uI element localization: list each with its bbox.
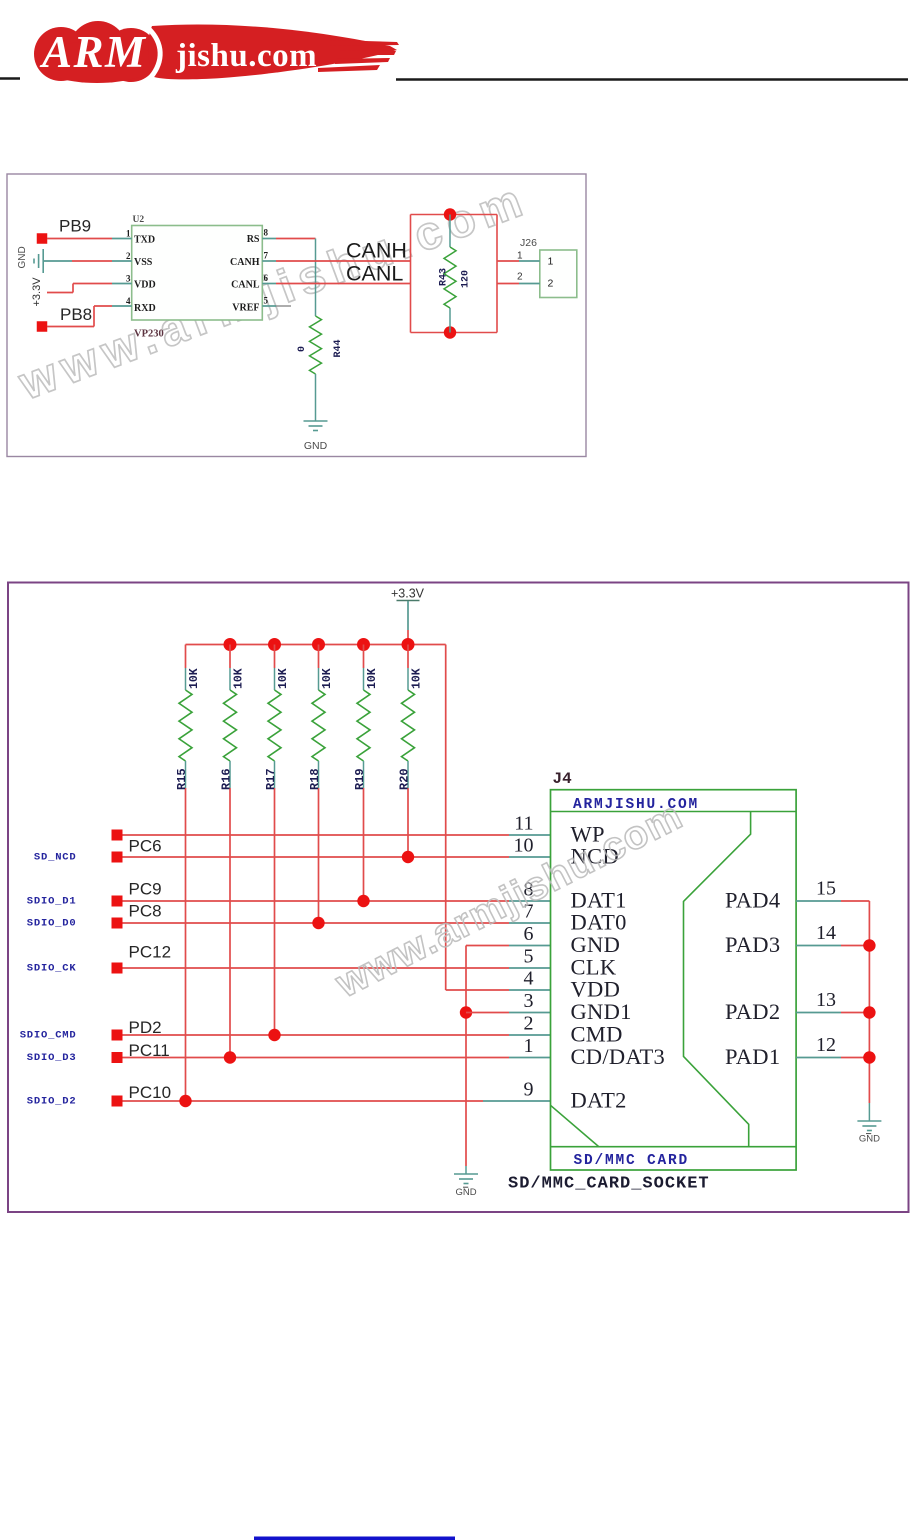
svg-text:RXD: RXD: [134, 303, 156, 314]
svg-text:DAT2: DAT2: [571, 1088, 627, 1113]
junction dot loop bottom: [444, 326, 456, 338]
svg-text:CANL: CANL: [346, 262, 403, 286]
pad PC6: [112, 830, 123, 841]
junction dot R16/CD-DAT3: [224, 1051, 236, 1063]
wire PAD2: [796, 1012, 841, 1014]
svg-text:PAD1: PAD1: [725, 1044, 780, 1069]
svg-text:PC10: PC10: [129, 1083, 172, 1102]
svg-text:3: 3: [126, 274, 131, 284]
svg-text:+3.3V: +3.3V: [391, 587, 425, 601]
junction dot R15/DAT2: [179, 1095, 191, 1107]
pad PC9: [112, 896, 123, 907]
pad PC8: [112, 918, 123, 929]
svg-text:7: 7: [264, 251, 269, 261]
svg-text:6: 6: [264, 273, 269, 283]
junction dot PAD1: [863, 1051, 875, 1063]
junction dot R19/DAT1: [357, 895, 369, 907]
svg-text:2: 2: [126, 251, 131, 261]
pad PB8: [37, 321, 48, 332]
wire PB9 to TXD: [47, 238, 112, 240]
junction dot bus R19: [357, 638, 370, 651]
pad PB9: [37, 233, 48, 244]
svg-text:5: 5: [524, 946, 534, 968]
svg-text:CANL: CANL: [231, 280, 260, 291]
wire PC11 row: [123, 1057, 510, 1059]
svg-text:PB9: PB9: [59, 217, 91, 236]
U2 pin 2 VSS stub: [112, 260, 132, 262]
ground (left): [454, 1173, 478, 1175]
svg-text:PC11: PC11: [129, 1041, 170, 1060]
svg-text:9: 9: [524, 1079, 534, 1101]
junction dot loop top: [444, 208, 456, 220]
resistor R19 10K column: [363, 645, 365, 669]
svg-text:SDIO_CMD: SDIO_CMD: [20, 1030, 77, 1042]
wire loop to J26 pin1: [497, 260, 519, 262]
svg-text:SDIO_D2: SDIO_D2: [27, 1096, 77, 1108]
junction dot R17/CMD: [268, 1029, 280, 1041]
svg-text:15: 15: [816, 878, 836, 900]
svg-text:CANH: CANH: [346, 239, 407, 263]
wire +3.3V to VDD: [47, 292, 73, 294]
svg-text:PAD4: PAD4: [725, 888, 780, 913]
wire R44 top lead: [315, 239, 317, 317]
svg-text:10K: 10K: [233, 668, 246, 689]
svg-text:PAD2: PAD2: [725, 999, 780, 1024]
svg-text:10K: 10K: [366, 668, 379, 689]
svg-text:1: 1: [548, 256, 554, 268]
svg-text:CANH: CANH: [230, 257, 260, 268]
junction dot PAD3: [863, 939, 875, 951]
svg-text:GND: GND: [17, 246, 28, 268]
connector J4 body: [551, 790, 797, 1170]
svg-text:R15: R15: [175, 768, 189, 790]
pad PC12: [112, 963, 123, 974]
ARMjishu.com logo: [34, 21, 399, 83]
wire VDD feed: [446, 989, 509, 991]
svg-text:2: 2: [524, 1013, 534, 1035]
svg-text:10K: 10K: [277, 668, 290, 689]
svg-text:2: 2: [548, 278, 554, 290]
resistor R16 10K column: [229, 645, 231, 669]
termination loop wires: [410, 215, 412, 333]
svg-text:R44: R44: [333, 339, 344, 357]
svg-text:2: 2: [517, 272, 523, 283]
U2 pin 8 RS stub: [262, 238, 276, 240]
svg-text:R20: R20: [398, 768, 412, 790]
wire GND vertical: [465, 946, 467, 1167]
svg-text:12: 12: [816, 1034, 836, 1056]
wire PB8 to RXD: [47, 326, 94, 328]
svg-text:SDIO_D1: SDIO_D1: [27, 896, 77, 908]
pad SD_NCD: [112, 852, 123, 863]
svg-text:www.armjishu.com: www.armjishu.com: [328, 793, 689, 1006]
resistor R20 10K column: [407, 645, 409, 669]
svg-text:PB8: PB8: [60, 305, 92, 324]
svg-text:VDD: VDD: [571, 977, 621, 1002]
U2 pin 7 CANH stub: [262, 260, 276, 262]
svg-text:SDIO_D0: SDIO_D0: [27, 918, 77, 930]
pad PC10: [112, 1096, 123, 1107]
U2 pin 5 VREF stub: [262, 305, 276, 307]
svg-text:1: 1: [126, 229, 131, 239]
ground (R44): [304, 420, 328, 422]
svg-text:R19: R19: [353, 768, 367, 790]
svg-text:4: 4: [126, 296, 131, 306]
wire SD_NCD row: [123, 856, 510, 858]
resistor R15 10K column: [185, 645, 187, 669]
svg-text:+3.3V: +3.3V: [31, 277, 43, 307]
resistor R17 10K column: [274, 645, 276, 669]
wire PAD4: [796, 900, 841, 902]
svg-text:1: 1: [524, 1035, 534, 1057]
svg-text:TXD: TXD: [134, 235, 155, 246]
svg-text:4: 4: [524, 968, 534, 990]
schematic frame 2 (SD/MMC socket): [8, 583, 909, 1213]
svg-text:5: 5: [264, 296, 269, 306]
wire CANH: [276, 260, 411, 262]
svg-text:VREF: VREF: [232, 303, 259, 314]
wire PC12 row: [123, 967, 510, 969]
svg-text:J4: J4: [553, 770, 573, 788]
svg-text:10K: 10K: [188, 668, 201, 689]
svg-text:PC9: PC9: [129, 880, 162, 899]
resistor R44: [310, 316, 322, 374]
svg-text:PC12: PC12: [129, 943, 172, 962]
op-amp / transceiver U2 VP230 body: [132, 226, 263, 321]
svg-text:1: 1: [517, 251, 523, 262]
ground (right): [857, 1120, 881, 1122]
wire GND pin6: [466, 945, 509, 947]
junction dot bus R16: [224, 638, 237, 651]
svg-text:14: 14: [816, 922, 836, 944]
U2 pin 1 TXD stub: [112, 238, 132, 240]
svg-text:GND: GND: [455, 1187, 476, 1198]
svg-text:PC8: PC8: [129, 902, 162, 921]
wire PD2 row: [123, 1034, 510, 1036]
VREF no-connect stub: [276, 305, 291, 307]
resistor R43 leads: [449, 215, 451, 248]
svg-text:13: 13: [816, 989, 836, 1011]
J4 top separator: [551, 811, 797, 813]
schematic frame 1 (CAN transceiver): [7, 174, 586, 457]
svg-text:8: 8: [264, 228, 269, 238]
wire PAD bus vertical: [868, 901, 870, 1058]
svg-text:R17: R17: [264, 768, 278, 790]
bus corner down to VDD: [445, 645, 447, 991]
footer link underline bar: [254, 1537, 455, 1540]
svg-text:CD/DAT3: CD/DAT3: [571, 1044, 666, 1069]
svg-text:PC6: PC6: [129, 837, 162, 856]
junction dot bus R18: [312, 638, 325, 651]
junction dot R18/DAT0: [312, 917, 324, 929]
svg-text:10: 10: [514, 835, 534, 857]
svg-text:VP230: VP230: [134, 329, 164, 340]
wire PC9 row: [123, 900, 510, 902]
svg-text:SD/MMC_CARD_SOCKET: SD/MMC_CARD_SOCKET: [508, 1175, 710, 1194]
svg-text:CMD: CMD: [571, 1022, 623, 1047]
connector J26 body: [540, 250, 577, 298]
svg-text:R18: R18: [308, 768, 322, 790]
SD card outline left notch: [551, 1105, 599, 1146]
U2 pin 4 RXD stub: [112, 305, 132, 307]
svg-text:SDIO_CK: SDIO_CK: [27, 963, 77, 975]
svg-text:10K: 10K: [411, 668, 424, 689]
header rule right segment: [396, 78, 908, 80]
junction dot bus R20: [402, 638, 415, 651]
pad PC11: [112, 1052, 123, 1063]
ground symbol (VSS): [42, 249, 44, 273]
wire PC8 row: [123, 922, 510, 924]
svg-text:SD/MMC CARD: SD/MMC CARD: [574, 1153, 690, 1169]
U2 pin 3 VDD stub: [112, 283, 132, 285]
svg-text:DAT0: DAT0: [571, 910, 627, 935]
svg-text:ARM: ARM: [39, 27, 147, 77]
svg-text:10K: 10K: [321, 668, 334, 689]
junction dot bus R17: [268, 638, 281, 651]
svg-text:3: 3: [524, 990, 534, 1012]
wire ground to VSS: [43, 260, 72, 262]
svg-text:VDD: VDD: [134, 280, 156, 291]
svg-text:U2: U2: [133, 215, 145, 225]
wire +3.3V down: [407, 601, 409, 630]
svg-text:SD_NCD: SD_NCD: [34, 852, 77, 864]
svg-text:GND: GND: [571, 932, 621, 957]
header rule left segment: [0, 77, 20, 79]
svg-text:jishu.com: jishu.com: [175, 38, 317, 74]
svg-text:GND: GND: [859, 1134, 880, 1145]
wire loop to J26 pin2: [497, 283, 519, 285]
svg-text:GND: GND: [304, 440, 328, 452]
svg-text:VSS: VSS: [134, 257, 153, 268]
svg-text:0: 0: [297, 346, 308, 352]
wire PAD1: [796, 1057, 841, 1059]
svg-text:120: 120: [461, 270, 472, 288]
svg-text:PAD3: PAD3: [725, 932, 780, 957]
svg-text:SDIO_D3: SDIO_D3: [27, 1052, 77, 1064]
wire PC10 row: [123, 1100, 484, 1102]
wire R44 to ground: [315, 374, 317, 421]
svg-text:PD2: PD2: [129, 1018, 162, 1037]
junction dot PAD2: [863, 1006, 875, 1018]
svg-text:www.armjishu.com: www.armjishu.com: [11, 171, 535, 410]
junction dot R20/NCD: [402, 851, 414, 863]
junction dot GND1: [460, 1006, 472, 1018]
wire PAD3: [796, 945, 841, 947]
pad PD2: [112, 1030, 123, 1041]
resistor R18 10K column: [318, 645, 320, 669]
wire RS to R44: [276, 238, 316, 240]
wire GND1 pin3: [466, 1012, 509, 1014]
svg-text:R43: R43: [439, 268, 450, 286]
svg-text:GND1: GND1: [571, 999, 632, 1024]
U2 pin 6 CANL stub: [262, 283, 276, 285]
resistor R43: [444, 247, 456, 308]
pull-up bus wire: [186, 644, 446, 646]
svg-text:6: 6: [524, 923, 534, 945]
svg-text:J26: J26: [520, 237, 537, 249]
wire PC6 row: [123, 834, 510, 836]
svg-text:RS: RS: [247, 234, 260, 245]
svg-text:R16: R16: [220, 768, 234, 790]
J4 bottom separator: [551, 1146, 797, 1148]
svg-text:11: 11: [514, 813, 533, 835]
wire CANL: [276, 283, 411, 285]
SD card outline polygon: [684, 812, 751, 1147]
